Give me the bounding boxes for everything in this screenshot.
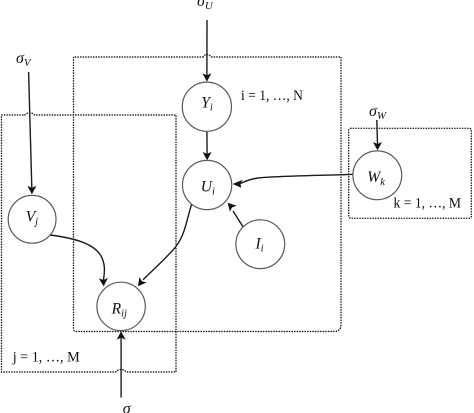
svg-text:σW: σW xyxy=(369,103,387,122)
svg-text:σ: σ xyxy=(123,400,132,413)
svg-text:k = 1, …, M: k = 1, …, M xyxy=(394,196,462,212)
svg-text:i = 1, …, N: i = 1, …, N xyxy=(241,88,303,104)
svg-text:σU: σU xyxy=(197,0,214,12)
svg-text:σV: σV xyxy=(16,50,32,69)
svg-text:j = 1, …, M: j = 1, …, M xyxy=(12,350,80,366)
